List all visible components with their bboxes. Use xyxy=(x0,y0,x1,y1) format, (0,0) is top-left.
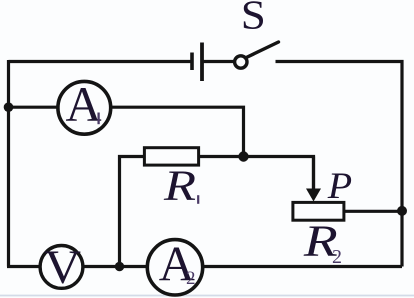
battery cell short plate xyxy=(190,53,194,71)
svg-text:A: A xyxy=(65,76,101,132)
svg-text:2: 2 xyxy=(332,246,342,268)
node R1/A1 junction xyxy=(238,151,248,161)
wire: R1 row (down-left leg, across, down to slider arrow) xyxy=(120,157,314,267)
node right wire / R2 junction xyxy=(397,206,407,216)
voltmeter V xyxy=(40,240,83,293)
wire: battery to switch xyxy=(204,60,235,63)
svg-text:P: P xyxy=(327,166,352,206)
wire: top-left horizontal (left corner to battery) xyxy=(9,60,191,63)
wire: R2 to right wire xyxy=(344,210,402,213)
label R2 xyxy=(303,216,342,268)
node bottom wire / R1 leg junction xyxy=(115,262,124,271)
battery cell long plate xyxy=(200,43,204,82)
wire: switch to top-right corner and down right side xyxy=(276,62,403,267)
node A1 branch on left wire xyxy=(4,102,14,112)
label R1 xyxy=(163,162,198,210)
resistor R2 potentiometer track xyxy=(293,202,344,220)
wire: left vertical xyxy=(7,60,10,267)
svg-text:V: V xyxy=(44,240,81,293)
slider arrow P (head) xyxy=(306,189,321,202)
switch S lever xyxy=(246,42,278,58)
slider arrow P (stem) xyxy=(312,157,315,192)
ammeter A2 xyxy=(147,235,202,295)
wire: A1 branch horizontal then down to R1 node xyxy=(9,107,244,156)
svg-text:S: S xyxy=(241,0,266,38)
svg-text:2: 2 xyxy=(186,268,196,289)
resistor R1 xyxy=(144,148,198,165)
switch S pivot circle xyxy=(235,56,247,68)
ammeter A1 xyxy=(58,76,111,134)
svg-text:R: R xyxy=(163,162,196,210)
bottom faint frame line xyxy=(0,295,414,297)
wire: bottom horizontal xyxy=(7,265,402,268)
